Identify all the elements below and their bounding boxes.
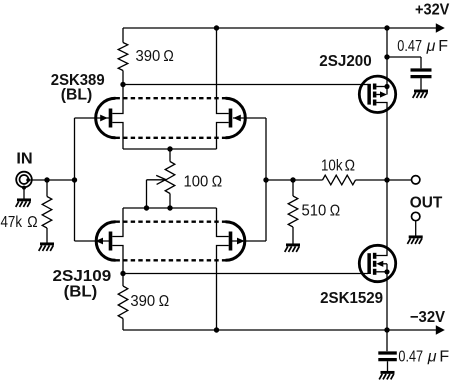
wire K389 right gate lead to feedback column: [233, 117, 266, 119]
svg-text:+32V: +32V: [415, 1, 450, 18]
wire 2SK1529 source to -32V rail: [386, 272, 388, 330]
wire gate column (IN to both JFET gates): [74, 118, 76, 241]
wire J109 right drain lead (to -32V rail): [217, 246, 229, 331]
resistor 390ohm bottom: [118, 274, 128, 331]
wire K389 left source lead: [112, 123, 123, 150]
wire gate lead K389 left: [75, 117, 111, 119]
node J109 left drain / 390ohm junction: [120, 271, 125, 276]
wire +32V top rail: [123, 23, 445, 33]
svg-text:47kΩ: 47kΩ: [1, 214, 38, 231]
svg-text:510Ω: 510Ω: [302, 203, 341, 220]
node decoupling cap junction top: [384, 54, 389, 59]
node feedback / output wire junction: [263, 177, 268, 182]
wire J109 left drain lead: [112, 246, 123, 274]
svg-text:390Ω: 390Ω: [130, 293, 169, 310]
transistor J109 left: gate arrow (P-ch, pointing left/out): [95, 238, 103, 245]
ground top cap: [413, 91, 428, 98]
wire drain K389-left to gate of 2SJ200: [123, 84, 368, 86]
wire J109 right source lead: [217, 208, 229, 237]
potentiometer wiper arrow: [147, 175, 166, 208]
transistor K389 right: channel bar: [229, 109, 233, 128]
wire gate lead J109 left: [75, 240, 111, 242]
wire to top decoupling cap: [387, 56, 421, 58]
wire feedback node to 10k: [266, 179, 323, 181]
node 47k junction: [44, 177, 49, 182]
wire 2SK1529 drain to output node: [376, 180, 387, 256]
ground IN jack shell: [16, 200, 31, 207]
node top rail / output stage junction: [384, 25, 389, 30]
svg-text:IN: IN: [16, 151, 32, 168]
wire K389 left drain lead: [112, 85, 123, 114]
node pot bottom junction: [167, 205, 172, 210]
wire IN to gate column: [28, 179, 74, 181]
ground bottom cap: [379, 372, 394, 379]
wire K389 right drain lead (to +32V rail): [217, 28, 229, 114]
svg-text:−32V: −32V: [410, 309, 446, 326]
transistor 2SK389 dual JFET package outline (dashed): [116, 98, 226, 138]
transistor 2SK1529 (N-ch MOSFET): [359, 245, 395, 281]
transistor J109 left: channel bar: [109, 232, 113, 251]
wire J109 source rail: [123, 207, 217, 209]
transistor J109 right: channel bar: [229, 232, 233, 251]
node pot top junction: [167, 146, 172, 151]
svg-text:2SK1529: 2SK1529: [320, 290, 383, 307]
wire K389 source rail: [123, 148, 217, 150]
svg-text:390Ω: 390Ω: [136, 48, 174, 65]
transistor K389 left half: arc: [96, 98, 116, 138]
wire +32V into 2SJ200 source: [386, 28, 388, 87]
svg-text:(BL): (BL): [61, 87, 93, 104]
svg-text:OUT: OUT: [410, 194, 443, 211]
node bottom rail / right JFET drain junction: [214, 327, 219, 332]
transistor K389 left: gate arrow (N-ch, pointing right): [100, 115, 108, 122]
wire K389 right source lead: [217, 123, 229, 150]
svg-text:10kΩ: 10kΩ: [321, 157, 355, 174]
ground OUT return: [407, 237, 422, 244]
resistor 510 ohm: [288, 180, 298, 244]
capacitor 0.47uF bottom: [378, 330, 397, 371]
ground 510 ohm: [285, 245, 300, 252]
transistor J109 right: gate arrow (pointing right/out): [237, 238, 245, 245]
node top rail / right JFET drain junction: [214, 25, 219, 30]
node left JFET drain / 390ohm junction: [120, 82, 125, 87]
wire J109 left source lead: [112, 208, 123, 237]
wire feedback column (right JFET gates): [265, 118, 267, 241]
svg-text:2SJ200: 2SJ200: [319, 53, 371, 70]
wire 2SJ200 drain to output node: [376, 103, 387, 181]
node 510 junction: [290, 177, 295, 182]
node bottom rail / output stage junction: [384, 327, 389, 332]
wire J109 right gate lead to feedback column: [232, 240, 266, 242]
svg-text:100Ω: 100Ω: [184, 174, 223, 191]
transistor J109 left half: arc: [96, 222, 115, 261]
resistor 47k ohm: [42, 180, 52, 243]
node wiper junction: [144, 205, 149, 210]
svg-text:(BL): (BL): [64, 284, 98, 301]
terminal OUT: [412, 176, 420, 184]
ground 47k: [39, 244, 54, 251]
wire drain J109-left to gate of 2SK1529: [123, 273, 368, 275]
node gate column junction: [72, 177, 77, 182]
transistor 2SJ109 dual JFET package outline (dashed): [116, 222, 226, 261]
transistor J109 right half: arc: [226, 222, 245, 261]
terminal OUT return: [412, 212, 420, 235]
capacitor 0.47uF top: [411, 57, 432, 90]
potentiometer 100 ohm: [165, 149, 175, 208]
transistor 2SJ200 (P-ch MOSFET): [359, 76, 395, 112]
transistor K389 right: gate arrow (pointing left into channel): [233, 115, 241, 122]
transistor K389 left: channel bar: [109, 109, 113, 128]
resistor 10k ohm: [323, 175, 388, 185]
terminal IN jack: [16, 172, 32, 199]
resistor 390ohm top: [118, 28, 128, 85]
node output junction: [384, 177, 389, 182]
wire output to OUT terminal: [387, 179, 412, 181]
transistor K389 right half: arc: [226, 98, 246, 138]
wire -32V bottom rail: [123, 325, 445, 335]
